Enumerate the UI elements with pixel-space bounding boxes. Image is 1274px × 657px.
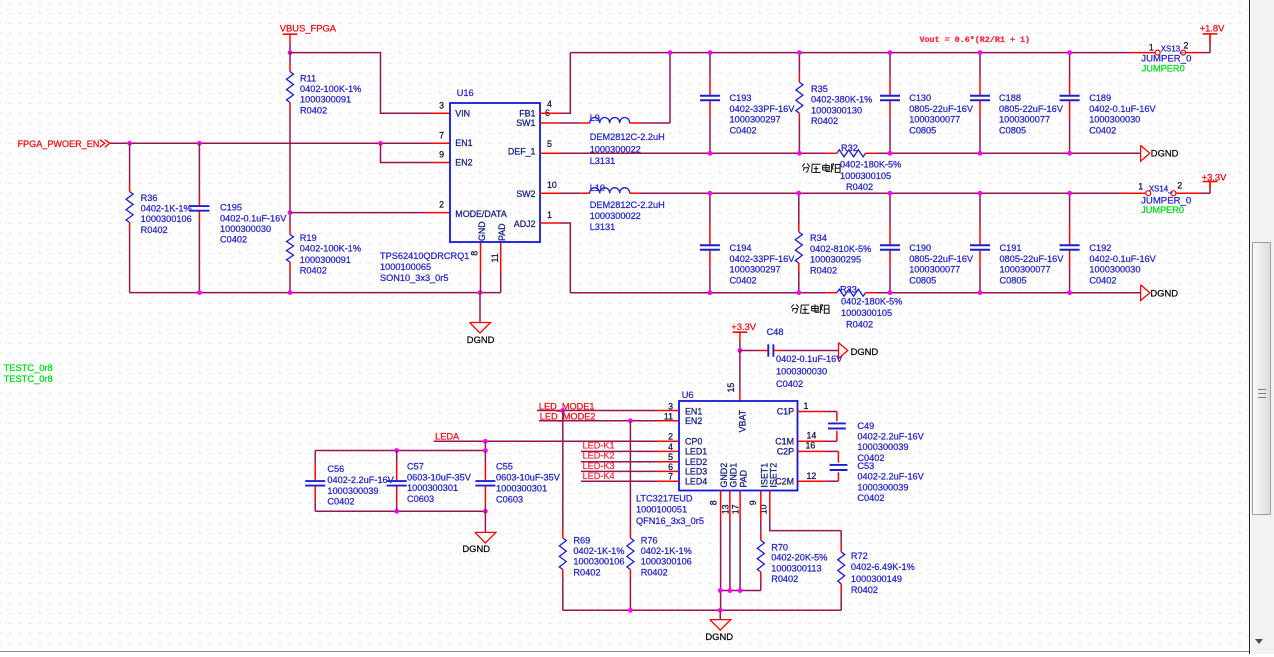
svg-text:R0402: R0402 [846, 319, 873, 329]
svg-text:C1M: C1M [775, 437, 794, 447]
svg-text:JUMPER0: JUMPER0 [1142, 63, 1185, 73]
svg-text:C191: C191 [1000, 243, 1022, 253]
svg-text:5: 5 [547, 139, 552, 149]
svg-text:0805-22uF-16V: 0805-22uF-16V [999, 104, 1064, 114]
svg-text:4: 4 [668, 442, 673, 452]
svg-text:0402-33PF-16V: 0402-33PF-16V [730, 104, 796, 114]
svg-text:LEDA: LEDA [435, 432, 460, 442]
svg-text:1000300295: 1000300295 [810, 255, 861, 265]
svg-text:U16: U16 [457, 88, 474, 98]
svg-text:FB1: FB1 [519, 108, 535, 118]
svg-text:DGND: DGND [705, 631, 733, 642]
svg-text:1000100065: 1000100065 [380, 262, 431, 272]
svg-text:XS14_: XS14_ [1149, 185, 1173, 194]
svg-text:1000300091: 1000300091 [300, 95, 351, 105]
svg-text:EN2: EN2 [455, 157, 472, 167]
svg-text:R76: R76 [641, 535, 658, 545]
svg-text:6: 6 [668, 462, 673, 472]
svg-text:LED_MODE1: LED_MODE1 [539, 401, 595, 411]
svg-text:R0402: R0402 [851, 585, 878, 595]
svg-text:LED3: LED3 [685, 467, 707, 477]
svg-text:LED1: LED1 [685, 447, 707, 457]
svg-text:1000300297: 1000300297 [730, 115, 781, 125]
svg-text:C0805: C0805 [999, 125, 1026, 135]
svg-text:2: 2 [1184, 41, 1189, 51]
svg-text:DGND: DGND [851, 346, 879, 357]
svg-text:L3131: L3131 [590, 222, 616, 232]
svg-text:1000300301: 1000300301 [407, 483, 458, 493]
svg-text:C195: C195 [220, 203, 242, 213]
svg-text:0603-10uF-35V: 0603-10uF-35V [407, 472, 472, 482]
svg-text:0402-1K-1%: 0402-1K-1% [641, 546, 692, 556]
svg-text:1: 1 [547, 210, 552, 220]
svg-text:0402-0.1uF-16V: 0402-0.1uF-16V [220, 213, 287, 223]
svg-text:3: 3 [439, 100, 444, 110]
svg-text:C49: C49 [857, 421, 874, 431]
svg-text:5: 5 [668, 452, 673, 462]
svg-text:SW1: SW1 [516, 118, 535, 128]
svg-text:C0402: C0402 [776, 379, 803, 389]
svg-text:1000300077: 1000300077 [1000, 265, 1051, 275]
svg-text:R0402: R0402 [846, 182, 873, 192]
svg-text:LED2: LED2 [685, 457, 707, 467]
svg-text:R33: R33 [840, 285, 857, 295]
svg-text:C1P: C1P [777, 407, 794, 417]
svg-text:1000300113: 1000300113 [771, 563, 821, 573]
svg-text:C0805: C0805 [909, 275, 936, 285]
svg-text:C0402: C0402 [730, 275, 757, 285]
svg-text:C0402: C0402 [1089, 275, 1116, 285]
svg-text:R72: R72 [851, 551, 868, 561]
svg-text:L10: L10 [590, 183, 605, 193]
svg-text:PAD: PAD [739, 470, 749, 488]
svg-text:SW2: SW2 [516, 189, 535, 199]
svg-text:1000300077: 1000300077 [999, 115, 1050, 125]
svg-text:+3.3V: +3.3V [1202, 172, 1228, 183]
svg-text:0402-33PF-16V: 0402-33PF-16V [730, 254, 796, 264]
svg-text:LTC3217EUD: LTC3217EUD [636, 493, 693, 503]
svg-text:1000300105: 1000300105 [841, 308, 892, 318]
svg-text:0402-1K-1%: 0402-1K-1% [573, 546, 624, 556]
svg-text:0402-0.1uF-16V: 0402-0.1uF-16V [1089, 254, 1156, 264]
svg-text:0402-180K-5%: 0402-180K-5% [840, 160, 901, 170]
svg-text:VBAT: VBAT [738, 409, 748, 432]
svg-text:9: 9 [439, 150, 444, 160]
svg-text:1000300130: 1000300130 [811, 105, 862, 115]
svg-text:0805-22uF-16V: 0805-22uF-16V [909, 254, 974, 264]
svg-text:R34: R34 [810, 233, 827, 243]
svg-text:JUMPER0: JUMPER0 [1141, 205, 1184, 215]
svg-text:1000300039: 1000300039 [857, 442, 908, 452]
svg-text:1000300022: 1000300022 [590, 211, 641, 221]
svg-text:FPGA_PWOER_EN: FPGA_PWOER_EN [18, 139, 100, 149]
svg-text:10: 10 [758, 504, 768, 514]
svg-text:1000100051: 1000100051 [636, 504, 687, 514]
svg-text:VIN: VIN [455, 108, 470, 118]
svg-text:MODE/DATA: MODE/DATA [455, 209, 507, 219]
svg-text:7: 7 [439, 130, 444, 140]
svg-text:C189: C189 [1089, 93, 1111, 103]
svg-text:1000300030: 1000300030 [776, 366, 827, 376]
svg-text:0402-6.49K-1%: 0402-6.49K-1% [851, 562, 915, 572]
svg-text:R32: R32 [841, 143, 858, 153]
svg-text:LED-K2: LED-K2 [583, 451, 615, 461]
svg-text:0402-2.2uF-16V: 0402-2.2uF-16V [857, 472, 924, 482]
svg-text:C130: C130 [909, 93, 931, 103]
svg-text:R11: R11 [300, 74, 316, 84]
svg-text:R19: R19 [300, 233, 317, 243]
svg-text:TPS62410QDRCRQ1: TPS62410QDRCRQ1 [380, 251, 469, 261]
svg-text:+1.8V: +1.8V [1200, 23, 1226, 34]
svg-text:1000300106: 1000300106 [573, 557, 624, 567]
svg-text:0402-810K-5%: 0402-810K-5% [810, 244, 871, 254]
svg-text:1000300106: 1000300106 [641, 557, 692, 567]
svg-text:C0402: C0402 [220, 235, 247, 245]
svg-text:R35: R35 [811, 84, 828, 94]
svg-text:C2P: C2P [777, 447, 794, 457]
svg-text:0603-10uF-35V: 0603-10uF-35V [496, 473, 561, 483]
svg-text:3: 3 [668, 402, 673, 412]
svg-text:C188: C188 [999, 93, 1021, 103]
svg-text:DGND: DGND [1151, 147, 1179, 158]
svg-text:Vout = 0.6*(R2/R1 + 1): Vout = 0.6*(R2/R1 + 1) [920, 35, 1031, 45]
svg-text:12: 12 [807, 471, 817, 481]
svg-text:C56: C56 [327, 464, 344, 474]
svg-text:C0805: C0805 [909, 125, 936, 135]
svg-text:DEF_1: DEF_1 [508, 147, 536, 157]
svg-text:0402-20K-5%: 0402-20K-5% [771, 552, 827, 562]
svg-text:C192: C192 [1089, 243, 1111, 253]
svg-text:C190: C190 [909, 243, 931, 253]
svg-text:+3.3V: +3.3V [731, 321, 757, 332]
svg-text:ADJ2: ADJ2 [514, 219, 536, 229]
svg-text:EN1: EN1 [685, 407, 702, 417]
svg-text:1000300105: 1000300105 [840, 171, 891, 181]
svg-text:C0402: C0402 [730, 125, 757, 135]
svg-text:GND1: GND1 [729, 463, 739, 488]
svg-text:C0402: C0402 [327, 497, 354, 507]
svg-text:U6: U6 [682, 390, 694, 400]
svg-text:1000300301: 1000300301 [496, 484, 547, 494]
svg-text:7: 7 [668, 472, 673, 482]
svg-text:1000300030: 1000300030 [1089, 115, 1140, 125]
svg-text:17: 17 [731, 504, 741, 514]
svg-text:DEM2812C-2.2uH: DEM2812C-2.2uH [590, 200, 665, 210]
svg-text:GND: GND [477, 221, 487, 241]
svg-text:R0402: R0402 [300, 105, 327, 115]
svg-text:1: 1 [1138, 181, 1143, 191]
svg-text:C53: C53 [857, 461, 874, 471]
svg-text:EN2: EN2 [685, 416, 702, 426]
svg-text:CP0: CP0 [685, 437, 702, 447]
svg-text:0402-1K-1%: 0402-1K-1% [141, 203, 192, 213]
svg-text:R0402: R0402 [810, 265, 837, 275]
svg-text:DEM2812C-2.2uH: DEM2812C-2.2uH [590, 132, 665, 142]
svg-text:1000300030: 1000300030 [220, 224, 271, 234]
svg-text:0805-22uF-16V: 0805-22uF-16V [1000, 254, 1065, 264]
svg-text:LED-K3: LED-K3 [583, 461, 615, 471]
svg-text:1000300106: 1000300106 [141, 214, 192, 224]
svg-text:TESTC_0r8: TESTC_0r8 [4, 363, 53, 373]
svg-text:LED-K4: LED-K4 [583, 471, 615, 481]
svg-text:0402-100K-1%: 0402-100K-1% [300, 244, 361, 254]
svg-text:LED_MODE2: LED_MODE2 [540, 412, 596, 422]
svg-text:LED-K1: LED-K1 [583, 440, 615, 450]
svg-text:R36: R36 [141, 193, 158, 203]
svg-text:0402-180K-5%: 0402-180K-5% [841, 297, 902, 307]
svg-text:R0402: R0402 [300, 266, 327, 276]
svg-text:R0402: R0402 [771, 574, 798, 584]
svg-text:1000300077: 1000300077 [909, 265, 960, 275]
svg-text:2: 2 [668, 432, 673, 442]
svg-text:0805-22uF-16V: 0805-22uF-16V [909, 104, 974, 114]
svg-text:1000300297: 1000300297 [730, 265, 781, 275]
svg-text:DGND: DGND [1150, 288, 1178, 299]
svg-text:0402-2.2uF-16V: 0402-2.2uF-16V [857, 432, 924, 442]
svg-text:11: 11 [490, 253, 500, 262]
svg-text:EN1: EN1 [455, 138, 472, 148]
svg-text:C194: C194 [730, 243, 752, 253]
svg-text:QFN16_3x3_0r5: QFN16_3x3_0r5 [636, 516, 704, 526]
svg-text:1000300030: 1000300030 [1089, 265, 1140, 275]
svg-text:C0603: C0603 [407, 494, 434, 504]
svg-text:1000300077: 1000300077 [909, 115, 960, 125]
svg-text:C193: C193 [730, 93, 752, 103]
svg-text:0402-380K-1%: 0402-380K-1% [811, 95, 872, 105]
svg-text:8: 8 [469, 251, 479, 256]
svg-text:15: 15 [726, 383, 736, 393]
svg-text:L3131: L3131 [590, 156, 616, 166]
svg-text:1: 1 [1149, 42, 1154, 52]
svg-text:14: 14 [807, 431, 817, 441]
svg-text:PAD: PAD [497, 223, 507, 241]
svg-text:0402-100K-1%: 0402-100K-1% [300, 84, 361, 94]
svg-text:13: 13 [720, 504, 730, 514]
svg-text:1000300149: 1000300149 [851, 574, 902, 584]
svg-text:DGND: DGND [467, 334, 495, 345]
svg-text:R70: R70 [771, 542, 788, 552]
svg-text:2: 2 [439, 200, 444, 210]
svg-text:R0402: R0402 [811, 116, 838, 126]
svg-text:2: 2 [1177, 181, 1182, 191]
svg-text:SON10_3x3_0r5: SON10_3x3_0r5 [380, 273, 448, 283]
svg-text:XS13_: XS13_ [1161, 45, 1185, 54]
svg-text:1000300039: 1000300039 [857, 482, 908, 492]
svg-text:11: 11 [664, 411, 673, 421]
svg-text:8: 8 [708, 500, 718, 505]
svg-text:DGND: DGND [462, 543, 490, 554]
svg-text:R0402: R0402 [141, 225, 168, 235]
svg-text:0402-0.1uF-16V: 0402-0.1uF-16V [1089, 104, 1156, 114]
svg-text:VBUS_FPGA: VBUS_FPGA [280, 22, 337, 33]
svg-text:TESTC_0r8: TESTC_0r8 [4, 374, 53, 384]
svg-text:C0402: C0402 [1089, 125, 1116, 135]
svg-text:ISET2: ISET2 [768, 463, 778, 488]
svg-text:0402-2.2uF-16V: 0402-2.2uF-16V [327, 475, 394, 485]
svg-text:LED4: LED4 [685, 476, 707, 486]
svg-text:9: 9 [748, 500, 758, 505]
svg-text:L9: L9 [590, 113, 600, 123]
svg-text:C57: C57 [407, 461, 424, 471]
svg-text:C55: C55 [496, 462, 513, 472]
svg-text:C0603: C0603 [496, 495, 523, 505]
svg-text:R0402: R0402 [641, 567, 668, 577]
svg-text:R69: R69 [573, 535, 590, 545]
svg-text:C0805: C0805 [1000, 275, 1027, 285]
svg-text:1: 1 [804, 401, 809, 411]
svg-text:C0402: C0402 [857, 493, 884, 503]
svg-text:1000300039: 1000300039 [327, 486, 378, 496]
svg-text:C48: C48 [767, 327, 784, 337]
svg-text:10: 10 [547, 180, 557, 190]
svg-text:1000300091: 1000300091 [300, 255, 351, 265]
svg-text:0402-0.1uF-16V: 0402-0.1uF-16V [776, 354, 843, 364]
svg-text:R0402: R0402 [573, 567, 600, 577]
